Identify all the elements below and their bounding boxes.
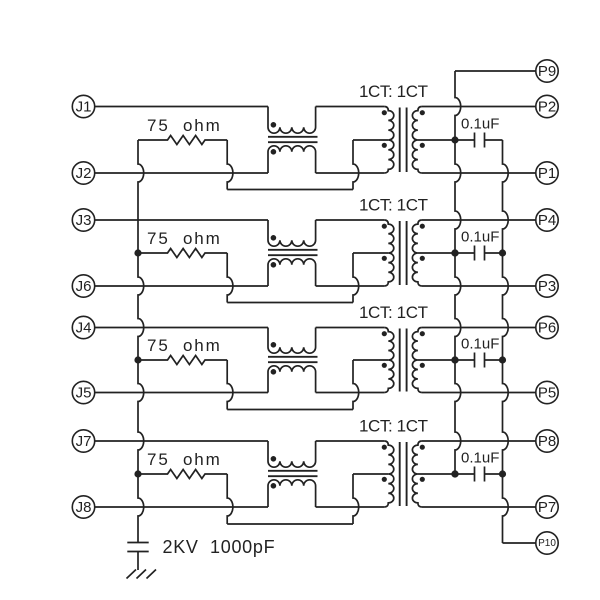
wire secondary center tap (ch4) (418, 473, 455, 475)
wire secondary bottom to P1 (ch1) (422, 172, 536, 174)
wire secondary center tap (ch2) (418, 252, 455, 254)
wire J6 to choke bottom (ch2) (95, 285, 268, 287)
capacitor 2KV 1000pF (127, 543, 148, 552)
svg-text:75 ohm: 75 ohm (147, 336, 222, 355)
capacitor 0.1uF (ch1) (455, 139, 475, 141)
pin P2 (536, 95, 558, 117)
wire secondary top to P8 (ch4) (422, 440, 536, 442)
transformer 1CT:1CT (ch3) (384, 328, 394, 393)
left termination bus (wire) (138, 140, 144, 543)
transformer 1CT:1CT (ch2) (384, 220, 394, 286)
common-mode choke (ch3) (268, 328, 316, 354)
svg-text:P3: P3 (538, 278, 556, 295)
wire J5 to choke bottom (ch3) (95, 392, 268, 394)
capacitor 0.1uF (ch2) (455, 252, 475, 254)
pin P8 (536, 430, 558, 452)
svg-text:1CT: 1CT: 1CT: 1CT (359, 196, 428, 215)
common-mode choke (ch4) (268, 441, 316, 467)
wire choke top to transformer primary (ch3) (316, 327, 385, 329)
wire secondary center tap (ch1) (418, 139, 455, 141)
pin P6 (536, 316, 558, 338)
connector J7 (72, 430, 94, 452)
svg-text:P9: P9 (538, 63, 556, 80)
connector J4 (72, 316, 94, 338)
junction center-tap bus (ch4) (451, 470, 458, 477)
transformer 1CT:1CT (ch1) (384, 107, 393, 174)
connector J2 (72, 162, 94, 184)
capacitor 0.1uF (ch4) (455, 473, 475, 475)
junction center-tap bus (ch1) (451, 136, 458, 143)
resistor 75 ohm (ch1) (138, 136, 227, 145)
svg-text:J6: J6 (76, 278, 92, 295)
wire J1 to choke top (ch1) (95, 106, 268, 108)
svg-text:1CT: 1CT: 1CT: 1CT (359, 417, 428, 436)
svg-text:P1: P1 (538, 165, 556, 182)
pin P5 (536, 381, 558, 403)
svg-text:P10: P10 (538, 538, 556, 549)
junction bus/resistor ch2 (134, 249, 141, 256)
svg-text:J5: J5 (76, 385, 92, 402)
svg-text:P8: P8 (538, 433, 556, 450)
connector J3 (72, 209, 94, 231)
wire choke top to transformer primary (ch2) (316, 219, 385, 221)
svg-text:1CT: 1CT: 1CT: 1CT (359, 303, 428, 322)
pin P9 (536, 60, 558, 82)
wire secondary top to P4 (ch2) (422, 219, 536, 221)
svg-text:J2: J2 (76, 165, 92, 182)
svg-text:J7: J7 (76, 433, 92, 450)
wire secondary bottom to P3 (ch2) (422, 285, 536, 287)
svg-text:0.1uF: 0.1uF (461, 450, 499, 467)
junction center-tap bus (ch2) (451, 249, 458, 256)
svg-text:J3: J3 (76, 212, 92, 229)
wire choke bottom to transformer primary (ch2) (316, 285, 385, 287)
svg-text:J1: J1 (76, 99, 92, 116)
pin P7 (536, 496, 558, 518)
wire choke bottom to transformer primary (ch3) (316, 392, 385, 394)
svg-text:P2: P2 (538, 99, 556, 116)
wire choke bottom to transformer primary (ch4) (316, 506, 385, 508)
pin P4 (536, 209, 558, 231)
wire secondary top to P6 (ch3) (422, 327, 536, 329)
junction cap bus (ch3) (499, 356, 506, 363)
wire P9 to center-tap bus (455, 70, 536, 72)
svg-text:P6: P6 (538, 320, 556, 337)
wire secondary bottom to P5 (ch3) (422, 392, 536, 394)
svg-text:1CT: 1CT: 1CT: 1CT (359, 82, 428, 101)
svg-text:0.1uF: 0.1uF (461, 229, 499, 246)
common-mode choke (ch1) (268, 107, 316, 134)
resistor 75 ohm (ch4) (138, 470, 227, 479)
svg-text:75 ohm: 75 ohm (147, 450, 222, 469)
junction center-tap bus ch3 (451, 356, 458, 363)
common-mode choke (ch2) (268, 220, 316, 246)
transformer 1CT:1CT (ch4) (384, 441, 394, 507)
junction center-tap bus (ch3) (451, 356, 458, 363)
junction cap bus (ch2) (499, 249, 506, 256)
pin P3 (536, 275, 558, 297)
wire resistor to center-tap return (ch2) (227, 253, 233, 303)
svg-text:J8: J8 (76, 499, 92, 516)
junction bus/resistor ch3 (134, 356, 141, 363)
svg-text:0.1uF: 0.1uF (461, 116, 499, 133)
wire choke top to transformer primary (ch4) (316, 440, 385, 442)
svg-text:75 ohm: 75 ohm (147, 116, 222, 135)
connector J1 (72, 95, 94, 117)
svg-text:P7: P7 (538, 499, 556, 516)
junction center-tap bus ch2 (451, 249, 458, 256)
junction cap bus (ch4) (499, 470, 506, 477)
svg-text:P5: P5 (538, 385, 556, 402)
connector J6 (72, 275, 94, 297)
connector J5 (72, 381, 94, 403)
svg-text:J4: J4 (76, 320, 92, 337)
wire cap bus to P10 (503, 542, 536, 544)
svg-text:75 ohm: 75 ohm (147, 229, 222, 248)
wire J7 to choke top (ch4) (95, 440, 268, 442)
ground (127, 570, 157, 579)
wire resistor to center-tap return (ch4) (227, 474, 233, 524)
wire J8 to choke bottom (ch4) (95, 506, 268, 508)
wire J4 to choke top (ch3) (95, 327, 268, 329)
wire choke bottom to transformer primary (ch1) (316, 172, 385, 174)
wire secondary bottom to P7 (ch4) (422, 506, 536, 508)
junction center-tap bus ch4 (451, 470, 458, 477)
wire choke top to transformer primary (ch1) (316, 106, 385, 108)
cap common bus (wire) (503, 140, 509, 543)
center-tap bus (wire) (455, 71, 461, 474)
svg-text:2KV 1000pF: 2KV 1000pF (163, 537, 276, 557)
capacitor 0.1uF (ch3) (455, 359, 475, 361)
wire secondary center tap (ch3) (418, 359, 455, 361)
resistor 75 ohm (ch2) (138, 249, 227, 258)
wire cap to ground (137, 552, 139, 571)
connector J8 (72, 496, 94, 518)
junction bus/resistor ch4 (134, 470, 141, 477)
pin P1 (536, 162, 558, 184)
wire J2 to choke bottom (ch1) (95, 172, 268, 174)
resistor 75 ohm (ch3) (138, 356, 227, 365)
pin P10 (536, 532, 558, 554)
wire resistor to center-tap return (ch1) (227, 140, 233, 190)
wire J3 to choke top (ch2) (95, 219, 268, 221)
wire secondary top to P2 (ch1) (422, 106, 536, 108)
wire resistor to center-tap return (ch3) (227, 360, 233, 410)
svg-text:0.1uF: 0.1uF (461, 336, 499, 353)
svg-text:P4: P4 (538, 212, 556, 229)
